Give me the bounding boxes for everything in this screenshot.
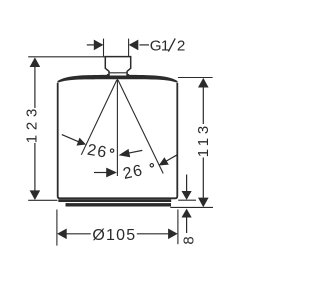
extension line Ø105 right	[177, 210, 179, 245]
arrow up 123	[30, 57, 41, 67]
dimension 8 lower arrow (points up)	[186, 213, 188, 233]
arrow down 113	[198, 198, 209, 208]
svg-text:123: 123	[24, 104, 41, 143]
slash of G 1/2	[168, 38, 175, 51]
svg-text:113: 113	[195, 122, 212, 157]
bottom face band	[58, 199, 171, 202]
shower head body outline	[58, 83, 178, 198]
top face band (domed top seen edge-on)	[57, 75, 177, 83]
spray cone center line	[116, 79, 118, 176]
extension line Ø105 left	[56, 210, 58, 246]
G1/2 right arrow (points left)	[129, 40, 139, 51]
dimension line Ø105	[59, 233, 91, 235]
extension line top of body (113 top)	[178, 77, 213, 79]
arrow up 113	[198, 78, 209, 88]
angle arrow A3 (points right at center line)	[94, 172, 108, 174]
svg-text:Ø105: Ø105	[92, 227, 136, 244]
angle arrow A2 (points left at center line)	[119, 149, 131, 157]
extension line top of connector (123 top)	[28, 56, 105, 58]
svg-text:26: 26	[86, 142, 109, 162]
arrow right Ø105	[168, 229, 178, 240]
degree circle (second)	[150, 164, 153, 167]
dimension line 113	[202, 80, 204, 124]
spray plate (8 mm disc)	[66, 203, 172, 206]
svg-text:2: 2	[177, 37, 185, 54]
G1/2 left arrow (points right)	[87, 44, 95, 46]
extension line 8 top	[178, 199, 196, 201]
arrow down 123	[30, 190, 41, 200]
svg-text:8: 8	[180, 236, 197, 244]
extension line bottom of body (123 bottom)	[28, 199, 57, 201]
angle arrow A1 (points at left cone line)	[62, 135, 79, 142]
angle arrow A4 (points at right cone line)	[159, 157, 169, 165]
svg-text:G1: G1	[150, 37, 170, 54]
spray cone right line (26 deg)	[118, 80, 163, 174]
dimension 8 upper arrow (points down)	[186, 175, 188, 196]
extension line G1/2 right	[128, 39, 130, 57]
degree circle (first)	[110, 149, 113, 152]
arrow left Ø105	[57, 229, 67, 240]
dimension line 123	[34, 59, 36, 108]
spray cone left line (26 deg)	[81, 80, 117, 155]
extension line bottom of plate (113/8 bottom)	[170, 206, 213, 208]
connector collar and nut G1/2	[105, 57, 130, 77]
collar split line	[109, 72, 127, 74]
extension line G1/2 left	[103, 39, 105, 57]
